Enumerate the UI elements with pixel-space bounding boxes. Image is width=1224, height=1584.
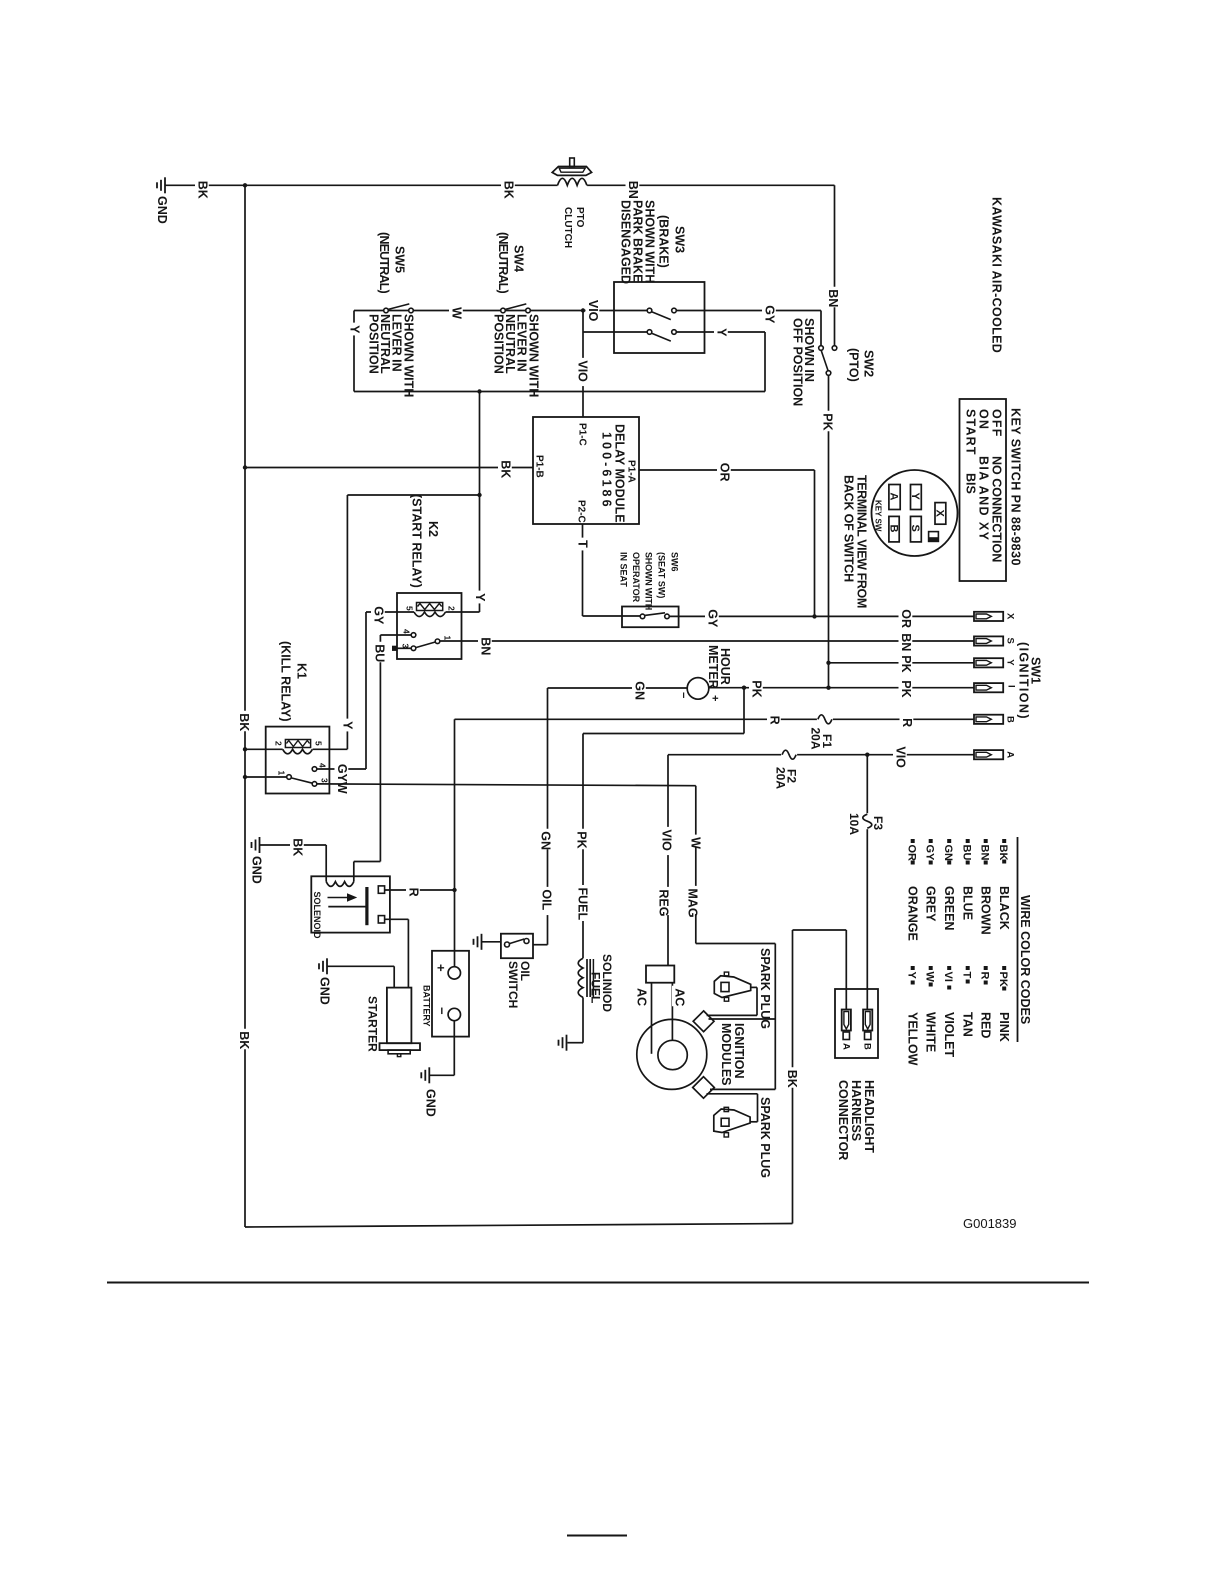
- coil PTO clutch: [552, 158, 591, 185]
- svg-text:BU: BU: [961, 845, 973, 861]
- svg-text:Y: Y: [348, 325, 362, 334]
- svg-text:W: W: [450, 307, 464, 319]
- svg-text:1: 1: [443, 636, 453, 641]
- label OIL: [539, 887, 554, 915]
- svg-text:BK: BK: [291, 838, 305, 856]
- wire Y row PK: [829, 662, 974, 664]
- svg-text:20A: 20A: [809, 728, 823, 750]
- svg-text:BK: BK: [785, 1070, 799, 1088]
- svg-text:5: 5: [314, 741, 324, 746]
- pin label P1-A: [626, 460, 637, 483]
- contact SW6: [640, 613, 669, 619]
- wire VIO to delay module: [582, 311, 584, 418]
- contact SW3 row1: [647, 308, 676, 319]
- starter M1: [380, 988, 421, 1057]
- delay module U1 box: [533, 417, 639, 524]
- svg-text:T: T: [576, 540, 590, 548]
- label IGNITION MODULES: [719, 1023, 746, 1086]
- svg-text:+: +: [709, 695, 721, 701]
- svg-text:HARNESS: HARNESS: [849, 1080, 863, 1141]
- connector SW1 terminal S: [974, 636, 1016, 645]
- label OIL SWITCH: [506, 961, 532, 1008]
- junction bus BK tap: [243, 465, 247, 469]
- wire X row to key switch: [669, 615, 973, 617]
- connector headlight A: [841, 1010, 852, 1051]
- wire ground to oil switch: [482, 941, 501, 943]
- label PK: [899, 653, 914, 674]
- label GYW: [335, 761, 350, 794]
- label SW1 (IGNITION): [1017, 642, 1043, 720]
- fuse F1 20A: [817, 713, 833, 725]
- wire W K1 to MAG: [317, 784, 696, 944]
- svg-text:5: 5: [405, 606, 415, 611]
- svg-text:PK: PK: [899, 680, 913, 697]
- label SOLINIOD FUEL: [589, 954, 615, 1012]
- fuel solenoid core: [587, 959, 593, 997]
- legend entry BLACK: [997, 839, 1011, 930]
- pin label P1-B: [534, 455, 545, 478]
- label SW2 (PTO): [847, 348, 876, 382]
- label GY: [705, 607, 720, 628]
- svg-text:GND: GND: [155, 196, 169, 224]
- wire SW3 row1 input: [583, 310, 647, 312]
- contact SW4: [501, 304, 531, 313]
- wire Y down to K2 coil: [479, 392, 481, 613]
- svg-text:SW2: SW2: [862, 350, 876, 377]
- svg-text:4: 4: [402, 629, 412, 634]
- label BU: [372, 642, 387, 663]
- junction OR into X row: [812, 614, 816, 618]
- svg-text:B: B: [1005, 716, 1016, 723]
- solenoid contact upper: [378, 886, 384, 893]
- svg-text:SPARK PLUG: SPARK PLUG: [758, 948, 772, 1029]
- svg-text:R: R: [979, 972, 991, 980]
- junction VIO tap: [581, 308, 585, 312]
- key switch terminal A: [888, 485, 901, 510]
- legend entry RED: [979, 966, 993, 1038]
- switch box SW6 seat switch: [622, 607, 679, 628]
- svg-text:100-6186: 100-6186: [600, 432, 614, 510]
- wire VIO F3 to headlight connector: [866, 755, 868, 1009]
- label GY: [371, 604, 386, 625]
- wire BK right riser: [792, 930, 794, 1224]
- svg-text:CLUTCH: CLUTCH: [562, 207, 573, 248]
- wire P2-C to seat switch: [583, 524, 641, 616]
- wire MAG riser: [696, 944, 776, 1090]
- contact SW5: [384, 304, 414, 313]
- pin label P2-C: [576, 500, 587, 523]
- svg-text:G001839: G001839: [963, 1216, 1017, 1231]
- wire GN hour meter left: [548, 687, 688, 689]
- svg-text:SW4: SW4: [512, 245, 526, 272]
- key switch terminal Y: [909, 485, 921, 510]
- wire BK bottom return: [245, 1224, 793, 1228]
- svg-text:RED: RED: [979, 1012, 993, 1038]
- svg-text:W: W: [924, 972, 936, 983]
- label BN: [626, 178, 641, 199]
- key switch terminal view circle: [872, 470, 958, 556]
- svg-text:(NEUTRAL): (NEUTRAL): [496, 232, 510, 293]
- wire BK top rail left: [165, 184, 558, 186]
- svg-text:3: 3: [320, 778, 330, 783]
- label SW4 (NEUTRAL): [496, 232, 526, 293]
- wire main BK bus left: [244, 185, 246, 1227]
- svg-text:FUEL: FUEL: [589, 972, 603, 1003]
- svg-text:PTO: PTO: [574, 207, 585, 228]
- wire upper module to spark plug: [707, 987, 757, 1015]
- pin label 5: [405, 606, 415, 611]
- key switch table box: [960, 399, 1007, 581]
- svg-text:−: −: [435, 1007, 450, 1015]
- headlight harness connector box: [835, 989, 878, 1058]
- svg-text:Y: Y: [1005, 659, 1016, 666]
- wire BU K2 pin4 to solenoid: [379, 635, 381, 862]
- svg-text:IGNITION: IGNITION: [732, 1023, 746, 1079]
- label K2 (START RELAY): [410, 494, 441, 588]
- svg-text:VIO: VIO: [586, 300, 600, 322]
- figure number G001839: [963, 1216, 1017, 1231]
- svg-text:POSITION: POSITION: [367, 314, 381, 374]
- wire solenoid to starter: [385, 919, 409, 987]
- svg-text:X: X: [934, 510, 946, 518]
- legend entry ORANGE: [906, 839, 920, 941]
- wire PK hour meter branch to fuel solenoid: [583, 688, 744, 959]
- label BN: [826, 287, 841, 308]
- svg-text:20A: 20A: [774, 767, 788, 789]
- svg-text:T: T: [961, 972, 973, 979]
- svg-text:GREEN: GREEN: [942, 886, 956, 930]
- svg-text:AC: AC: [673, 988, 687, 1006]
- svg-text:B: B: [888, 525, 900, 533]
- junction hour meter branch: [742, 686, 746, 690]
- svg-text:OR: OR: [906, 845, 918, 862]
- svg-text:BACK OF SWITCH: BACK OF SWITCH: [842, 475, 856, 582]
- pin label 1: [443, 636, 453, 641]
- label PK: [574, 829, 589, 850]
- svg-text:A: A: [841, 1043, 852, 1050]
- legend entry BROWN: [979, 839, 993, 935]
- svg-text:PK: PK: [997, 972, 1009, 987]
- hour meter M2: [687, 678, 709, 700]
- label HEADLIGHT HARNESS CONNECTOR: [836, 1080, 876, 1160]
- label F1 20A: [809, 728, 835, 750]
- label SW5 (NEUTRAL): [377, 232, 407, 293]
- solenoid coil: [326, 862, 380, 887]
- svg-text:BK: BK: [237, 713, 251, 731]
- svg-text:2: 2: [274, 741, 284, 746]
- label SPARK PLUG upper: [758, 948, 772, 1029]
- wire fuel solenoid to ground: [568, 997, 584, 1042]
- wire I row PK hour meter to key switch: [709, 687, 974, 689]
- svg-text:GYW: GYW: [335, 764, 349, 794]
- svg-text:W: W: [689, 837, 703, 849]
- wire GY SW3 to SW2: [676, 311, 821, 346]
- svg-text:P1-B: P1-B: [534, 455, 545, 478]
- svg-text:BN: BN: [479, 637, 493, 655]
- svg-text:A: A: [888, 493, 900, 501]
- ground GND5 fuel: [559, 1035, 567, 1051]
- svg-text:−: −: [677, 692, 689, 698]
- spark plug upper: [714, 972, 750, 1001]
- svg-text:CONNECTOR: CONNECTOR: [836, 1080, 850, 1160]
- wire AC left: [651, 983, 653, 1054]
- legend entry WHITE: [924, 966, 938, 1052]
- svg-text:BLACK: BLACK: [997, 886, 1011, 930]
- svg-text:ORANGE: ORANGE: [906, 886, 920, 941]
- wire lower module to mag: [710, 1088, 775, 1090]
- svg-text:GY: GY: [372, 606, 386, 625]
- svg-text:HEADLIGHT: HEADLIGHT: [862, 1080, 876, 1153]
- pin label 1: [277, 771, 287, 776]
- svg-text:OFF POSITION: OFF POSITION: [791, 318, 805, 406]
- label SW6 (SEAT SW) SHOWN WITH OPERATOR IN SEAT: [619, 552, 680, 610]
- svg-text:K2: K2: [426, 521, 440, 537]
- svg-text:BU: BU: [373, 644, 387, 662]
- svg-text:OR: OR: [718, 463, 732, 482]
- wire upper module to mag: [709, 1018, 776, 1020]
- svg-text:TERMINAL VIEW FROM: TERMINAL VIEW FROM: [855, 475, 869, 608]
- junction F3 tap: [865, 753, 869, 757]
- svg-text:PINK: PINK: [997, 1012, 1011, 1042]
- solenoid plunger: [328, 887, 367, 925]
- svg-text:GREY: GREY: [924, 886, 938, 922]
- wire SW5 left edge: [353, 311, 355, 392]
- svg-text:K1: K1: [295, 663, 309, 679]
- svg-text:REG: REG: [657, 889, 671, 916]
- svg-text:IN SEAT: IN SEAT: [619, 552, 629, 587]
- label BN: [899, 631, 914, 652]
- pin label P1-C: [577, 423, 588, 446]
- svg-text:VIO: VIO: [576, 360, 590, 382]
- wire S row BN from K2: [440, 640, 974, 642]
- wire R solenoid to battery: [385, 889, 455, 891]
- svg-text:SWITCH: SWITCH: [506, 961, 520, 1008]
- wire BN down to SW2: [834, 185, 836, 345]
- wire BN top rail right: [587, 184, 834, 186]
- label BK: [237, 1029, 252, 1050]
- svg-text:PK: PK: [821, 413, 835, 430]
- label - minus: [435, 1007, 450, 1015]
- connector SW1 terminal X: [974, 612, 1016, 621]
- label REG: [656, 887, 671, 917]
- regulator REG box: [646, 966, 674, 983]
- junction R battery: [452, 888, 456, 892]
- svg-text:SOLENOID: SOLENOID: [312, 892, 322, 940]
- wire AC right: [671, 983, 673, 1040]
- svg-text:SPARK PLUG: SPARK PLUG: [758, 1097, 772, 1178]
- label VIO: [575, 358, 590, 386]
- svg-text:BK: BK: [196, 181, 210, 199]
- label GN: [538, 829, 553, 850]
- svg-text:R: R: [768, 716, 782, 725]
- svg-text:VIO: VIO: [660, 829, 674, 851]
- svg-text:BK: BK: [997, 845, 1009, 861]
- pin label 5: [314, 741, 324, 746]
- svg-text:GY: GY: [763, 305, 777, 324]
- wire BK bus to P1-B: [245, 467, 533, 469]
- label WIRE COLOR CODES heading: [1018, 895, 1032, 1024]
- label BN: [478, 635, 493, 656]
- svg-text:BN: BN: [626, 181, 640, 199]
- svg-text:SHOWN WITH: SHOWN WITH: [644, 552, 654, 610]
- connector headlight B: [862, 1010, 873, 1051]
- svg-text:METER: METER: [706, 645, 720, 689]
- ground GND3: [318, 958, 332, 1004]
- wire bottom return line: [354, 391, 765, 393]
- wire GY K2 to K1: [365, 612, 367, 769]
- svg-text:BIS: BIS: [964, 473, 978, 494]
- flywheel alternator inner: [658, 1040, 687, 1069]
- label KEY SWITCH PN 88-9830: [1009, 408, 1023, 566]
- wire lower module to spark plug: [707, 1094, 758, 1122]
- svg-text:(BRAKE): (BRAKE): [657, 215, 671, 268]
- svg-text:2: 2: [447, 606, 457, 611]
- svg-text:GND: GND: [250, 856, 264, 884]
- label SW3 (BRAKE): [657, 215, 687, 268]
- label VIO: [893, 744, 908, 772]
- junction bus K1 coil: [243, 747, 247, 751]
- connector SW1 terminal Y: [974, 658, 1016, 667]
- label Y: [347, 323, 362, 336]
- label PK: [899, 678, 914, 699]
- svg-text:BN: BN: [979, 845, 991, 861]
- svg-text:GN: GN: [942, 845, 954, 862]
- legend entry TAN: [961, 966, 975, 1037]
- label BK: [237, 711, 252, 732]
- label K1 (KILL RELAY): [279, 641, 309, 722]
- pin label 3: [401, 644, 411, 649]
- svg-text:START: START: [964, 409, 978, 456]
- svg-text:(KILL RELAY): (KILL RELAY): [279, 641, 293, 722]
- junction bus K1 contact: [243, 775, 247, 779]
- pin label 2: [447, 606, 457, 611]
- svg-text:BN: BN: [826, 289, 840, 307]
- oil switch box: [501, 934, 533, 959]
- label Y: [473, 591, 488, 604]
- svg-text:STARTER: STARTER: [366, 996, 380, 1052]
- legend entry YELLOW: [906, 966, 920, 1066]
- label + plus: [709, 695, 721, 701]
- svg-text:I: I: [1006, 685, 1017, 688]
- relay K2 contact 4: [380, 633, 415, 638]
- svg-text:MODULES: MODULES: [719, 1023, 733, 1086]
- svg-text:B: B: [862, 1043, 873, 1050]
- wire PK from SW2 down: [828, 375, 830, 687]
- label KAWASAKI AIR-COOLED: [990, 197, 1004, 353]
- svg-text:F3: F3: [871, 816, 885, 830]
- svg-text:KEY SWITCH PN 88-9830: KEY SWITCH PN 88-9830: [1009, 408, 1023, 566]
- svg-text:VIOLET: VIOLET: [942, 1012, 956, 1058]
- svg-text:POSITION: POSITION: [492, 314, 506, 374]
- svg-text:TAN: TAN: [961, 1012, 975, 1037]
- svg-text:3: 3: [401, 644, 411, 649]
- connector SW1 terminal I: [974, 683, 1017, 692]
- label T: [575, 538, 590, 551]
- solenoid box: [311, 876, 390, 932]
- svg-text:BROWN: BROWN: [979, 886, 993, 935]
- svg-text:KEY SW: KEY SW: [874, 500, 883, 532]
- label STARTER: [366, 996, 380, 1052]
- svg-text:PK: PK: [750, 680, 764, 697]
- svg-text:4: 4: [318, 763, 328, 768]
- wire SW3 row2 input: [583, 331, 647, 333]
- svg-text:NO CONNECTION: NO CONNECTION: [990, 456, 1004, 562]
- svg-text:(SEAT SW): (SEAT SW): [657, 552, 667, 598]
- wire ground to starter: [327, 966, 394, 987]
- label W: [688, 835, 703, 850]
- label R: [900, 716, 915, 729]
- svg-text:S: S: [909, 525, 921, 532]
- key switch terminal B: [888, 516, 900, 542]
- junction Y branch: [477, 493, 481, 497]
- svg-text:KAWASAKI AIR-COOLED: KAWASAKI AIR-COOLED: [990, 197, 1004, 353]
- label TERMINAL VIEW FROM BACK OF SWITCH: [842, 475, 869, 608]
- legend entry GREY: [924, 839, 938, 922]
- oil switch contacts: [505, 939, 530, 948]
- junction PK Y row: [826, 661, 830, 665]
- svg-text:OFF: OFF: [990, 409, 1004, 438]
- svg-text:GN: GN: [539, 831, 553, 850]
- label - minus: [677, 692, 689, 698]
- fuel solenoid coil: [578, 958, 583, 997]
- footer rule: [107, 1281, 1089, 1283]
- relay K1 coil: [245, 740, 347, 754]
- junction main bus / top rail: [243, 183, 247, 187]
- label F3 10A: [847, 813, 885, 835]
- svg-text:BATTERY: BATTERY: [422, 985, 432, 1027]
- svg-text:GND: GND: [318, 977, 332, 1005]
- wire switch top line SW5 SW4: [354, 310, 583, 312]
- wire Y SW3 row2 to bottom rail: [676, 332, 765, 392]
- svg-text:Y: Y: [341, 721, 355, 730]
- relay K1 contact 4: [312, 767, 366, 772]
- relay K2 contact 3 and blade: [392, 639, 440, 651]
- svg-text:BK: BK: [237, 1031, 251, 1049]
- wire headlight connector A to BK riser: [793, 930, 847, 1009]
- label + plus: [434, 964, 449, 972]
- label KEY SW: [874, 500, 883, 532]
- svg-text:A: A: [1005, 751, 1016, 758]
- label OR: [717, 460, 732, 481]
- label AC: [672, 986, 687, 1007]
- svg-text:(PTO): (PTO): [847, 348, 861, 382]
- svg-text:WHITE: WHITE: [924, 1012, 938, 1052]
- svg-text:(NEUTRAL): (NEUTRAL): [377, 232, 391, 293]
- legend entry BLUE: [961, 839, 975, 920]
- label BK: [290, 836, 305, 857]
- svg-text:OPERATOR: OPERATOR: [631, 552, 641, 603]
- battery minus terminal: [448, 1008, 460, 1020]
- ground GND6 oil switch: [474, 934, 482, 950]
- wire battery minus to ground: [430, 1021, 455, 1076]
- ground GND1 top-left: [155, 177, 169, 223]
- svg-text:SW6: SW6: [670, 552, 680, 572]
- svg-text:P1-A: P1-A: [626, 460, 637, 483]
- label AC: [635, 988, 649, 1006]
- label W: [449, 305, 464, 320]
- svg-text:P2-C: P2-C: [576, 500, 587, 523]
- svg-text:YELLOW: YELLOW: [906, 1012, 920, 1066]
- label BK: [501, 178, 516, 199]
- svg-text:BLUE: BLUE: [961, 886, 975, 920]
- label OFF NO CONNECTION: [990, 409, 1004, 562]
- switch box SW3: [614, 282, 705, 353]
- label PK: [749, 678, 764, 699]
- svg-text:OR: OR: [899, 609, 913, 628]
- svg-text:1: 1: [277, 771, 287, 776]
- label F2 20A: [774, 767, 799, 789]
- relay K2 coil: [366, 603, 480, 617]
